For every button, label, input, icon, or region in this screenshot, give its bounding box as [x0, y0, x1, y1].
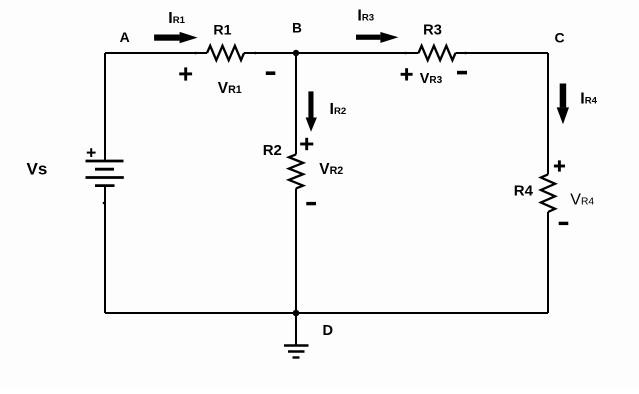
resistor R4 [541, 174, 555, 212]
svg-text:Vs: Vs [27, 160, 48, 179]
svg-text:IR1: IR1 [168, 10, 185, 27]
junction node D [293, 310, 300, 317]
polarity plus VR2 [300, 138, 313, 150]
current arrow IR4 [557, 84, 569, 125]
svg-text:VR3: VR3 [420, 71, 443, 87]
resistor R3 [419, 46, 456, 60]
polarity minus VR1 [266, 71, 276, 75]
wire right vertical C to R4 [547, 53, 549, 174]
resistor R1 [207, 46, 244, 60]
svg-text:B: B [292, 21, 302, 36]
current arrow IR3 [356, 32, 398, 43]
junction node B [293, 50, 299, 56]
polarity minus VR2 [306, 202, 316, 205]
svg-text:R3: R3 [423, 22, 442, 38]
wire R4 to bottom-right corner [547, 212, 549, 313]
wire tick left of R3 [404, 52, 407, 55]
polarity plus VR3 [401, 68, 413, 80]
svg-text:IR2: IR2 [330, 101, 347, 118]
wire R3 to C corner [456, 52, 549, 54]
wire tick right of R3 [464, 52, 467, 55]
ground [284, 346, 309, 358]
wire bottom D rail [105, 312, 548, 314]
wire left vertical A to battery [104, 53, 106, 161]
battery Vs [86, 161, 124, 186]
wire ground stub at D [295, 313, 297, 346]
svg-text:R1: R1 [213, 23, 231, 39]
svg-text:IR3: IR3 [357, 7, 374, 24]
svg-text:A: A [120, 29, 130, 45]
current arrow IR2 [306, 91, 317, 131]
wire B vertical to R2 [295, 53, 297, 154]
current arrow IR1 [154, 32, 198, 43]
wire R2 to bottom rail [295, 188, 297, 313]
svg-text:C: C [554, 30, 564, 46]
wire tick right of R1 [254, 52, 257, 55]
svg-text:VR4: VR4 [570, 191, 594, 208]
svg-text:R2: R2 [263, 142, 282, 159]
svg-text:IR4: IR4 [580, 90, 597, 107]
wire top-left A to R1 [105, 52, 207, 54]
wire battery to bottom-left corner [104, 186, 106, 313]
svg-text:VR1: VR1 [218, 80, 242, 97]
resistor R2 [289, 154, 303, 188]
polarity plus VR1 [179, 67, 192, 80]
svg-text:D: D [323, 323, 334, 339]
polarity minus VR4 [559, 222, 569, 225]
wire tick left of R1 [194, 52, 197, 55]
polarity minus VR3 [457, 71, 467, 75]
svg-text:VR2: VR2 [319, 161, 343, 178]
svg-text:R4: R4 [514, 183, 534, 200]
polarity plus VR4 [554, 160, 565, 171]
battery plus polarity mark [87, 148, 96, 157]
wire R1 to B to R3 [244, 52, 419, 54]
wire tick below battery [103, 202, 105, 204]
